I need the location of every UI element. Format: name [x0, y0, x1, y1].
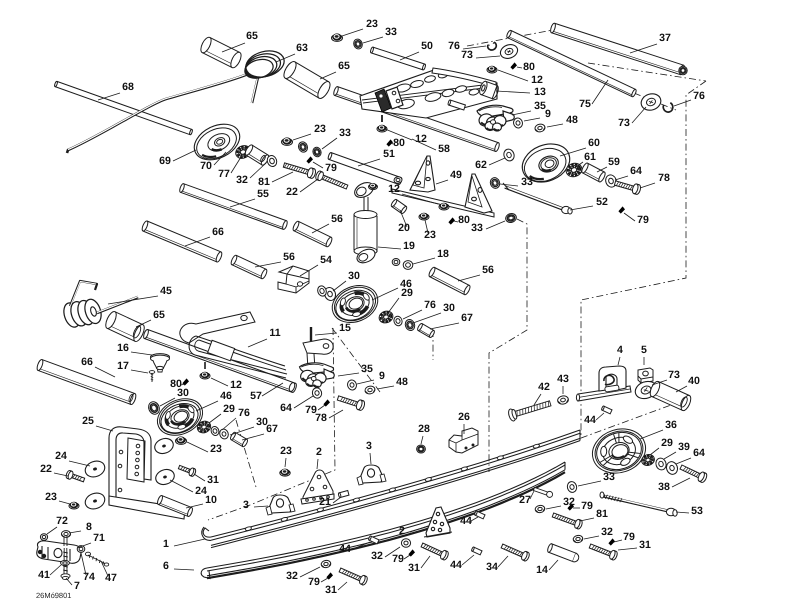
washer 9 bottom: [346, 379, 357, 391]
washer 32: [266, 154, 278, 168]
svg-text:28: 28: [418, 423, 430, 435]
washer 30 right-wheel b: [316, 285, 327, 298]
label 12: [498, 70, 543, 86]
label 67: [430, 312, 473, 329]
svg-text:21: 21: [319, 496, 331, 508]
label 44: [584, 413, 604, 426]
svg-text:55: 55: [257, 188, 269, 200]
label 43: [557, 373, 569, 394]
svg-text:20: 20: [398, 222, 410, 234]
svg-text:44: 44: [460, 515, 472, 527]
svg-text:12: 12: [531, 74, 543, 86]
label 13: [496, 86, 546, 98]
frame 11 sleeve: [208, 340, 235, 360]
nut 23 shock: [419, 213, 429, 220]
label 29: [650, 437, 673, 455]
svg-text:64: 64: [280, 402, 292, 414]
label 48: [377, 376, 408, 389]
svg-text:29: 29: [661, 437, 673, 449]
washer 24 right-top: [153, 436, 176, 456]
label 22: [40, 463, 68, 476]
label 16: [117, 342, 152, 355]
washer 30 right-wheel: [323, 286, 338, 302]
label 40: [676, 375, 700, 392]
label 32: [371, 547, 400, 562]
bullet 79 c4: [326, 572, 333, 579]
bullet 80 tube51: [386, 139, 393, 146]
svg-text:66: 66: [81, 356, 93, 368]
wheel 69: [188, 117, 245, 167]
tube 37 end bushing: [679, 66, 687, 74]
label 10: [186, 494, 217, 508]
svg-text:67: 67: [461, 312, 473, 324]
washer 39: [654, 457, 667, 472]
screw 17: [149, 371, 155, 382]
nut 8: [61, 531, 70, 538]
block 26: [449, 428, 478, 453]
label 59: [597, 156, 620, 172]
label 23: [293, 123, 326, 140]
label 67: [242, 423, 278, 440]
label 21: [319, 496, 341, 508]
pin 44 r1: [601, 406, 612, 414]
bearing 77: [234, 143, 253, 161]
label 79: [392, 553, 410, 565]
rod 52: [503, 183, 572, 214]
bolt 81 bottom: [551, 511, 583, 530]
wheel 60: [517, 137, 576, 189]
label 29: [388, 287, 413, 313]
dash-dot boundary left diagonal: [208, 328, 335, 520]
block 71 face holes: [38, 550, 46, 558]
svg-text:67: 67: [266, 423, 278, 435]
svg-text:79: 79: [581, 500, 593, 512]
tube 37: [550, 23, 686, 76]
tube 55: [179, 183, 288, 230]
frame 11 arm plate right: [303, 339, 333, 369]
washer 62: [502, 148, 516, 163]
tube 56 c: [428, 266, 471, 295]
tube 66 lower: [36, 359, 137, 405]
tube 75: [506, 30, 637, 98]
torsion spring 45 hook arm: [70, 281, 97, 306]
label 9: [524, 108, 551, 121]
tube 66 upper: [141, 220, 223, 262]
svg-text:64: 64: [693, 447, 705, 459]
label 80: [454, 214, 470, 226]
front arm main plate: [360, 70, 497, 118]
svg-text:73: 73: [461, 49, 473, 61]
label 46: [196, 390, 232, 411]
svg-text:41: 41: [38, 569, 50, 581]
svg-text:9: 9: [379, 370, 385, 382]
label 12: [385, 129, 427, 145]
svg-text:52: 52: [596, 196, 608, 208]
dash-dot boundary right vertical: [581, 81, 706, 438]
label 68: [98, 81, 134, 100]
svg-text:49: 49: [450, 169, 462, 181]
svg-text:60: 60: [588, 137, 600, 149]
svg-text:80: 80: [523, 61, 535, 73]
nut 23 below-wheel: [176, 437, 187, 445]
svg-text:78: 78: [315, 412, 327, 424]
svg-text:71: 71: [93, 532, 105, 544]
svg-text:33: 33: [385, 26, 397, 38]
label 5: [641, 344, 647, 365]
bolt 78 bottom: [336, 393, 365, 411]
dash-dot boundary mid vertical: [489, 219, 527, 472]
bearing 29 br: [640, 453, 656, 467]
svg-text:31: 31: [325, 584, 337, 596]
svg-text:38: 38: [658, 481, 670, 493]
pin 44 c1: [474, 511, 485, 519]
label 32: [584, 526, 613, 539]
label 47: [101, 561, 117, 584]
svg-text:43: 43: [557, 373, 569, 385]
svg-text:44: 44: [339, 543, 351, 555]
label 52: [570, 196, 608, 210]
label 76: [448, 40, 486, 52]
svg-text:30: 30: [177, 387, 189, 399]
nut 12 on strip: [439, 203, 449, 210]
label 76: [403, 299, 436, 319]
label 77: [218, 157, 241, 180]
svg-text:6: 6: [163, 560, 169, 572]
label 75: [579, 80, 608, 110]
bearing 61: [564, 161, 584, 179]
label 1: [163, 538, 205, 550]
svg-text:32: 32: [236, 174, 248, 186]
label 65: [222, 30, 258, 52]
label 12: [388, 183, 438, 204]
label 19: [378, 240, 415, 252]
label 30: [160, 387, 189, 406]
label 33: [322, 127, 351, 149]
svg-text:8: 8: [86, 521, 92, 533]
svg-text:65: 65: [246, 30, 258, 42]
svg-text:46: 46: [220, 390, 232, 402]
svg-text:3: 3: [243, 499, 249, 511]
svg-text:31: 31: [408, 562, 420, 574]
svg-text:48: 48: [566, 114, 578, 126]
svg-text:23: 23: [210, 443, 222, 455]
screw 47: [85, 552, 108, 566]
torsion spring 45 straight arm: [97, 297, 138, 313]
label 78: [640, 172, 670, 188]
bullet 80 strip: [448, 217, 455, 224]
bolt 42: [507, 397, 552, 421]
svg-text:30: 30: [348, 270, 360, 282]
svg-text:23: 23: [45, 491, 57, 503]
bracket 2 left: [301, 470, 334, 504]
pin 44 c3: [471, 547, 482, 555]
label 50: [400, 40, 433, 60]
front arm cross pin: [448, 100, 466, 110]
svg-text:36: 36: [665, 419, 677, 431]
svg-text:26: 26: [458, 411, 470, 423]
bracket 49 strip: [392, 189, 494, 217]
label 8: [69, 521, 92, 533]
washer near strip: [394, 176, 403, 184]
svg-text:79: 79: [623, 531, 635, 543]
label 54: [300, 254, 332, 276]
spacer 67 left: [229, 432, 248, 448]
dash-dot centerline through washer 73/ring 76: [634, 93, 676, 110]
bearing 29 right: [377, 309, 394, 325]
nut 48 top: [534, 123, 545, 132]
bracket 3 left: [266, 495, 295, 515]
svg-text:57: 57: [250, 390, 262, 402]
label 32: [286, 567, 320, 582]
label 12: [211, 378, 242, 391]
dash-dot centerline of tube 37: [467, 30, 706, 81]
bullet 79 c1: [567, 503, 574, 510]
nut 23 top: [332, 34, 343, 42]
bracket 25 foot arm: [109, 496, 185, 519]
label 65: [320, 60, 350, 79]
svg-text:77: 77: [218, 168, 230, 180]
svg-text:76: 76: [448, 40, 460, 52]
label 32: [236, 163, 266, 186]
label 23: [424, 220, 436, 241]
bolt 31 c2: [420, 541, 449, 561]
bracket 49 gusset 2: [465, 174, 492, 213]
washer 41: [61, 560, 70, 565]
label 39: [664, 441, 690, 459]
label 33: [363, 26, 397, 43]
block 71 stud: [64, 536, 67, 546]
label 28: [418, 423, 430, 444]
pin 27: [533, 486, 553, 498]
label 79: [308, 576, 328, 588]
pin 21: [338, 491, 349, 498]
label 56: [312, 213, 343, 233]
label 33: [578, 471, 615, 486]
svg-text:23: 23: [424, 229, 436, 241]
label 6: [163, 560, 194, 572]
label 41: [38, 565, 61, 581]
svg-text:80: 80: [393, 137, 405, 149]
label 55: [230, 188, 269, 207]
svg-text:19: 19: [403, 240, 415, 252]
svg-text:7: 7: [74, 580, 80, 592]
washer 73 top: [498, 42, 519, 60]
tube 56 b: [230, 254, 268, 279]
svg-text:9: 9: [545, 108, 551, 120]
block 71: [37, 541, 81, 563]
label 27: [519, 491, 534, 506]
label 18: [413, 248, 449, 264]
pivot eyelet 13: [478, 80, 500, 99]
frame 11 arm plate left: [180, 312, 255, 343]
svg-text:29: 29: [223, 403, 235, 415]
bullet 80 top: [510, 62, 517, 69]
washer 74: [77, 546, 85, 553]
frame 11 U-tube top run: [196, 336, 286, 370]
washer 64 bottom: [311, 387, 323, 399]
svg-text:68: 68: [122, 81, 134, 93]
svg-text:33: 33: [339, 127, 351, 139]
washer 73 right: [639, 91, 663, 112]
washer right-wheel extra: [404, 318, 416, 332]
torsion spring 63 short arm: [252, 77, 258, 103]
tube 50: [370, 47, 426, 70]
bolt 14: [547, 543, 580, 563]
svg-text:42: 42: [538, 381, 550, 393]
nut 12 frame: [200, 362, 210, 379]
svg-text:17: 17: [117, 360, 129, 372]
label 23: [280, 445, 292, 467]
shock bottom eyelet: [355, 247, 377, 266]
label 60: [560, 137, 600, 156]
svg-text:73: 73: [618, 117, 630, 129]
washer 33 mid: [489, 176, 501, 189]
svg-text:59: 59: [608, 156, 620, 168]
svg-text:65: 65: [153, 309, 165, 321]
bracket 25 inner plate: [118, 438, 145, 492]
svg-text:81: 81: [596, 508, 608, 520]
label 78: [315, 410, 343, 424]
washer 24 left: [83, 458, 107, 479]
label 23: [342, 18, 378, 36]
ring 18: [403, 261, 413, 270]
svg-text:18: 18: [437, 248, 449, 260]
svg-text:44: 44: [450, 559, 462, 571]
svg-text:73: 73: [668, 369, 680, 381]
label 22: [286, 179, 318, 198]
svg-text:4: 4: [617, 344, 623, 356]
bracket 4 plate: [599, 366, 626, 391]
bolt 31 c4: [338, 566, 368, 586]
label 76: [674, 90, 705, 106]
front arm bracket: [375, 87, 403, 112]
svg-text:76: 76: [424, 299, 436, 311]
bracket 49 gusset 1: [410, 156, 435, 192]
svg-text:3: 3: [366, 440, 372, 452]
wheel 46 left: [152, 392, 209, 442]
pin 15: [310, 327, 312, 341]
svg-text:26Mó9801: 26Mó9801: [36, 591, 71, 600]
bullet 79 c2: [408, 549, 415, 556]
diagram code: [36, 591, 71, 600]
label 74: [81, 553, 95, 583]
svg-text:2: 2: [399, 525, 405, 537]
bracket 4 bar: [576, 386, 631, 401]
roller 40: [648, 380, 692, 412]
nut 5: [638, 368, 653, 383]
svg-text:23: 23: [314, 123, 326, 135]
label 31: [408, 556, 430, 574]
washer 33 low: [505, 212, 518, 223]
bolt 31 mid-left: [178, 463, 197, 477]
label 23: [187, 442, 222, 455]
ring 76 left: [210, 425, 220, 436]
svg-text:70: 70: [200, 160, 212, 172]
svg-text:27: 27: [519, 494, 531, 506]
pin above nut 12a: [381, 115, 383, 122]
washer 24 right-bottom: [154, 467, 177, 487]
slide rail 1: [202, 430, 580, 548]
label 58: [412, 139, 450, 155]
ring 76 top: [487, 42, 498, 52]
washer 28: [417, 445, 426, 453]
label 36: [640, 419, 677, 439]
svg-text:45: 45: [160, 285, 172, 297]
bullet 79 c3: [608, 538, 615, 545]
cylinder 65 right: [281, 60, 332, 101]
ring 76 right: [662, 102, 674, 113]
label 4: [617, 344, 623, 365]
svg-text:48: 48: [396, 376, 408, 388]
label 42: [534, 381, 550, 405]
spacer 59: [581, 162, 607, 183]
bolt 22 top: [315, 170, 349, 191]
svg-text:78: 78: [658, 172, 670, 184]
label 57: [250, 383, 283, 402]
label 53: [676, 505, 703, 517]
label 31: [618, 539, 651, 551]
ring 18 b: [392, 259, 400, 266]
svg-text:40: 40: [688, 375, 700, 387]
svg-text:13: 13: [534, 86, 546, 98]
svg-text:15: 15: [339, 322, 351, 334]
bullet 79 bottom-mid: [323, 399, 330, 406]
front arm upper blade: [432, 68, 496, 87]
bolt 78 top: [614, 178, 642, 195]
label 79: [313, 162, 337, 174]
spacer 67 right: [417, 323, 436, 338]
svg-text:80: 80: [458, 214, 470, 226]
bolt 81 top: [283, 160, 317, 179]
svg-text:37: 37: [659, 32, 671, 44]
dash-dot short left piece: [236, 420, 256, 487]
label 66: [185, 226, 224, 246]
front arm plate mid line: [362, 84, 492, 103]
bullet 79 right: [618, 206, 625, 213]
svg-text:31: 31: [207, 474, 219, 486]
dash-dot diagonal near pin 15: [332, 328, 380, 392]
wheel 36: [587, 422, 652, 480]
dash-dot boundary small vertical: [432, 330, 434, 360]
svg-text:11: 11: [269, 327, 280, 339]
svg-text:66: 66: [212, 226, 224, 238]
svg-text:56: 56: [331, 213, 343, 225]
svg-text:25: 25: [82, 415, 94, 427]
washer 30 left: [147, 400, 162, 416]
shock body 19: [354, 211, 377, 256]
label 20: [398, 210, 410, 234]
svg-text:22: 22: [40, 463, 52, 475]
svg-text:75: 75: [579, 98, 591, 110]
bolt 38: [679, 462, 708, 483]
label 24: [55, 450, 90, 466]
label 31: [194, 474, 219, 486]
label 64: [676, 447, 705, 464]
label 30: [230, 416, 268, 435]
svg-text:1: 1: [163, 538, 169, 550]
ring 72: [40, 534, 47, 541]
frame 11 end 57: [288, 382, 296, 392]
frame 11 U-tube bottom run: [195, 351, 287, 378]
svg-text:31: 31: [639, 539, 651, 551]
nut 32 c1: [535, 505, 546, 514]
label 73: [652, 369, 680, 385]
label 2: [399, 525, 428, 537]
label 69: [159, 150, 196, 167]
washer 73 bottom: [633, 379, 659, 402]
label 70: [200, 152, 226, 172]
washer 32 c2: [401, 539, 410, 547]
